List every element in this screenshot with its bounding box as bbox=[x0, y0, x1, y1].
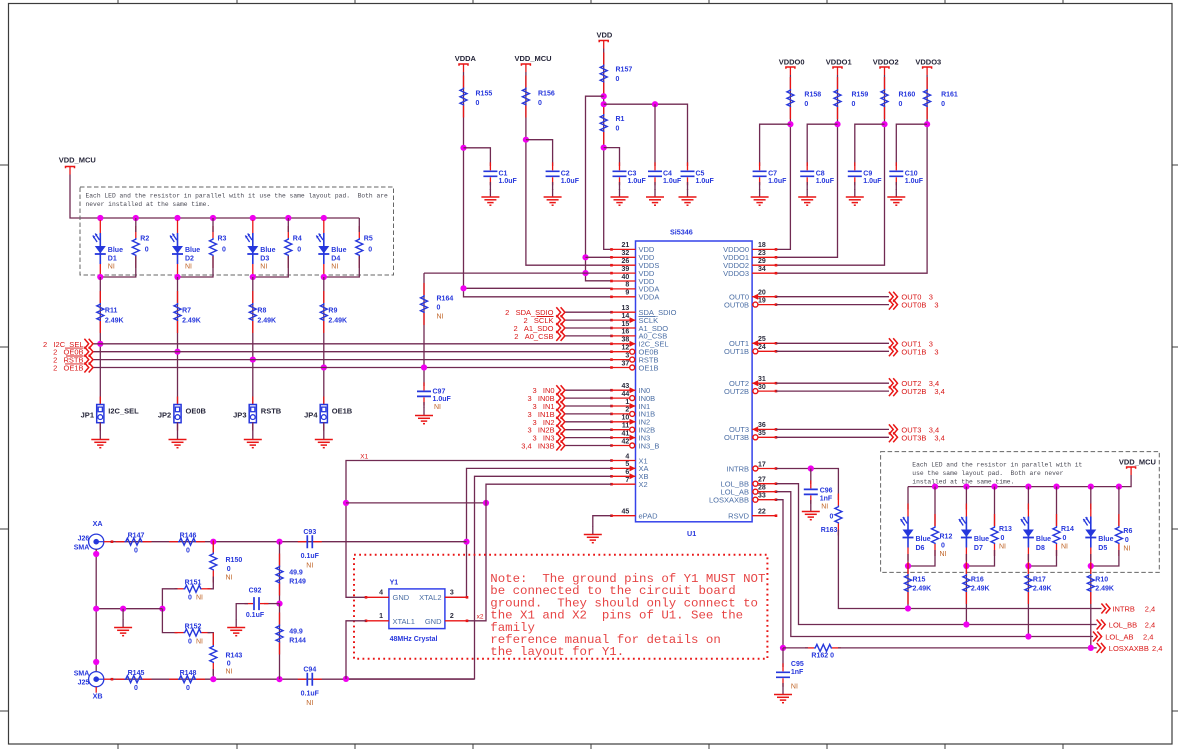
wire R7 column bbox=[177, 277, 179, 405]
svg-text:C95: C95 bbox=[791, 661, 804, 668]
resistor R149 49.9 bbox=[276, 554, 283, 596]
svg-text:0: 0 bbox=[1063, 535, 1067, 542]
U1 pin 30 OUT2B bbox=[752, 390, 776, 392]
resistor R12 0 NI bbox=[932, 514, 939, 556]
off-page connector IN3 bbox=[556, 433, 565, 443]
wire R150 drop bbox=[212, 542, 214, 553]
wire net IN3B bbox=[565, 445, 612, 447]
svg-text:R5: R5 bbox=[364, 236, 373, 243]
U1 pin 8 VDDA bbox=[612, 288, 636, 290]
wire R151 to mid rail bbox=[162, 589, 177, 609]
junction rail/R6 bbox=[1116, 484, 1122, 490]
junction R8/bus bbox=[250, 357, 256, 363]
resistor R158 0 bbox=[787, 77, 794, 119]
svg-text:1: 1 bbox=[379, 613, 383, 620]
resistor R145 0 bbox=[116, 676, 152, 683]
svg-text:R157: R157 bbox=[616, 67, 633, 74]
U1 pin 10 IN2 bbox=[612, 421, 636, 423]
ground under C97 bbox=[415, 408, 433, 424]
svg-text:0: 0 bbox=[941, 543, 945, 550]
svg-text:34: 34 bbox=[758, 266, 766, 273]
wire net SCLK bbox=[565, 319, 612, 321]
svg-text:R155: R155 bbox=[476, 91, 493, 98]
svg-text:NI: NI bbox=[1123, 546, 1130, 553]
junction VDD/C4C5 bbox=[601, 101, 607, 107]
wire VDD vert to pin 32 bbox=[586, 256, 612, 258]
junction VDDO1/C8 bbox=[834, 121, 840, 127]
wire R17 column bbox=[1027, 554, 1029, 637]
wire R152 to R143 bbox=[208, 633, 214, 645]
U1 pin 1 IN1 bbox=[612, 405, 636, 407]
wire mid rail ground stem bbox=[122, 609, 124, 620]
svg-text:NI: NI bbox=[437, 314, 444, 321]
wire R10 column bbox=[1090, 554, 1092, 648]
svg-text:INTRB: INTRB bbox=[727, 464, 750, 473]
svg-text:R145: R145 bbox=[128, 670, 145, 677]
capacitor C96 1nF NI bbox=[804, 480, 818, 503]
SMA connector J25 bbox=[89, 672, 112, 693]
svg-text:2 OE1B: 2 OE1B bbox=[53, 364, 83, 373]
svg-text:0: 0 bbox=[222, 247, 226, 254]
svg-text:2.49K: 2.49K bbox=[1033, 586, 1052, 593]
wire XB row bbox=[110, 678, 475, 680]
svg-text:1.0uF: 1.0uF bbox=[696, 178, 715, 185]
svg-text:C96: C96 bbox=[820, 488, 833, 495]
svg-text:Si5346: Si5346 bbox=[670, 228, 693, 237]
wire C5 to ground bbox=[687, 182, 689, 190]
junction R17/signal row bbox=[1025, 633, 1031, 639]
svg-text:X1: X1 bbox=[360, 453, 368, 460]
off-page connector LOL_AB bbox=[1093, 632, 1102, 642]
junction shield/mid rail bbox=[93, 606, 99, 612]
svg-text:2.49K: 2.49K bbox=[913, 586, 932, 593]
svg-text:1nF: 1nF bbox=[820, 496, 833, 503]
wire net LOL_AB bbox=[776, 492, 1093, 637]
U1 pin 3 RSTB bbox=[612, 359, 636, 361]
wire VDDO3 rail to IC bbox=[776, 75, 927, 273]
resistor R155 0 bbox=[460, 76, 467, 118]
svg-text:1.0uF: 1.0uF bbox=[905, 178, 924, 185]
svg-text:JP4: JP4 bbox=[304, 411, 318, 420]
U1 pin 4 X1 bbox=[612, 460, 636, 462]
LED D2 Blue NI bbox=[170, 220, 183, 277]
svg-text:R149: R149 bbox=[289, 579, 306, 586]
svg-text:2,4: 2,4 bbox=[1143, 633, 1153, 642]
svg-text:R11: R11 bbox=[105, 308, 118, 315]
ground under C7 bbox=[751, 189, 769, 205]
svg-text:0: 0 bbox=[186, 548, 190, 555]
junction J26 shield bbox=[93, 551, 99, 557]
off-page connector OUT1 bbox=[889, 338, 898, 348]
resistor R162 0 bbox=[805, 644, 841, 651]
wire R8 column bbox=[252, 277, 254, 405]
junction rail/R2 bbox=[133, 215, 139, 221]
svg-text:2.49K: 2.49K bbox=[105, 318, 124, 325]
svg-text:0: 0 bbox=[1001, 535, 1005, 542]
svg-text:installed at the same time.: installed at the same time. bbox=[912, 479, 1014, 486]
svg-text:40: 40 bbox=[622, 274, 630, 281]
wire C8 to ground bbox=[806, 182, 808, 190]
wire net A0_CSB bbox=[565, 335, 612, 337]
wire net A1_SDO bbox=[565, 327, 612, 329]
off-page connector IN1 bbox=[556, 401, 565, 411]
svg-text:R164: R164 bbox=[437, 296, 454, 303]
jumper JP2 OE0B bbox=[174, 397, 181, 431]
svg-text:4: 4 bbox=[625, 453, 629, 460]
capacitor C10 1.0uF bbox=[889, 162, 903, 185]
svg-text:9: 9 bbox=[625, 290, 629, 297]
junction R9/bus bbox=[321, 364, 327, 370]
junction R11/bus bbox=[97, 341, 103, 347]
svg-text:R6: R6 bbox=[1123, 528, 1132, 535]
LED D6 Blue bbox=[901, 504, 914, 561]
wire net IN0 bbox=[565, 389, 612, 391]
wire VDDO1 rail to IC bbox=[776, 75, 838, 257]
capacitor C4 1.0uF bbox=[648, 162, 662, 185]
resistor R156 0 bbox=[522, 76, 529, 118]
svg-text:0: 0 bbox=[368, 247, 372, 254]
wire C1 to ground bbox=[489, 182, 491, 190]
svg-text:D1: D1 bbox=[108, 256, 117, 263]
svg-text:Blue: Blue bbox=[974, 536, 989, 543]
svg-text:3: 3 bbox=[934, 347, 938, 356]
svg-text:LOSXAXBB: LOSXAXBB bbox=[709, 496, 749, 505]
overline on SCLK label bbox=[537, 316, 554, 318]
resistor R13 0 NI bbox=[991, 514, 998, 556]
svg-text:C3: C3 bbox=[628, 171, 637, 178]
resistor R16 2.49K bbox=[963, 562, 970, 604]
svg-text:NI: NI bbox=[331, 264, 338, 271]
svg-text:JP3: JP3 bbox=[233, 411, 246, 420]
svg-text:2.49K: 2.49K bbox=[328, 318, 347, 325]
resistor R164 0 NI bbox=[421, 283, 428, 325]
svg-text:XA: XA bbox=[93, 519, 103, 528]
svg-text:NI: NI bbox=[260, 264, 267, 271]
svg-text:R10: R10 bbox=[1095, 577, 1108, 584]
wire C95 drop bbox=[782, 648, 784, 667]
wire LOSXAXBB dot to R162 bbox=[783, 647, 808, 649]
wire rail stub to R2 bbox=[135, 218, 137, 232]
svg-text:D4: D4 bbox=[331, 256, 340, 263]
svg-text:1.0uF: 1.0uF bbox=[628, 178, 647, 185]
junction VDD/C3 bbox=[601, 145, 607, 151]
wire R144 column bbox=[279, 604, 281, 680]
U1 pin 5 XA bbox=[612, 467, 636, 469]
ground under C10 bbox=[887, 189, 905, 205]
junction D6 bottom bbox=[905, 563, 911, 569]
off-page connector LOL_BB bbox=[1097, 620, 1106, 630]
jumper JP4 OE1B bbox=[320, 397, 327, 431]
svg-text:2.49K: 2.49K bbox=[257, 318, 276, 325]
wire D3/R4 pair bottom bbox=[253, 256, 288, 277]
U1 pin 13 SDA_SDIO bbox=[612, 311, 636, 313]
svg-text:NI: NI bbox=[185, 264, 192, 271]
svg-text:R8: R8 bbox=[257, 308, 266, 315]
off-page connector OE1B (left) bbox=[84, 363, 93, 373]
svg-text:R162 0: R162 0 bbox=[811, 653, 834, 660]
svg-text:2 A0_CSB: 2 A0_CSB bbox=[514, 332, 553, 341]
svg-text:R9: R9 bbox=[328, 308, 337, 315]
resistor R144 49.9 bbox=[276, 613, 283, 655]
svg-text:30: 30 bbox=[758, 384, 766, 391]
svg-text:OUT1B: OUT1B bbox=[901, 347, 926, 356]
svg-text:15: 15 bbox=[622, 321, 630, 328]
off-page connector INTRB bbox=[1101, 604, 1110, 614]
Y1 pin 3 XTAL2 stub bbox=[445, 596, 467, 598]
svg-text:OUT0B: OUT0B bbox=[724, 300, 749, 309]
svg-text:NI: NI bbox=[434, 404, 441, 411]
wire R11 column bbox=[99, 277, 101, 405]
svg-text:45: 45 bbox=[622, 509, 630, 516]
junction D3 bottom bbox=[250, 274, 256, 280]
wire net OE0B bus bbox=[93, 351, 612, 353]
svg-text:16: 16 bbox=[622, 329, 630, 336]
junction rail/D4 bbox=[321, 215, 327, 221]
svg-text:NI: NI bbox=[196, 638, 203, 645]
off-page connector OE0B (left) bbox=[84, 347, 93, 357]
svg-text:R159: R159 bbox=[852, 92, 869, 99]
wire D4/R5 pair bottom bbox=[324, 256, 360, 277]
svg-text:11: 11 bbox=[622, 423, 630, 430]
svg-text:Blue: Blue bbox=[1036, 536, 1051, 543]
wire C96 drop bbox=[810, 469, 812, 485]
junction rail/D2 bbox=[174, 215, 180, 221]
wire VDDO2 rail to IC bbox=[776, 75, 885, 265]
svg-text:3: 3 bbox=[929, 339, 933, 348]
capacitor C94 0.1uF NI bbox=[298, 673, 322, 686]
junction rail/D8 bbox=[1025, 484, 1031, 490]
svg-text:0: 0 bbox=[145, 247, 149, 254]
wire net OUT0 bbox=[776, 296, 889, 298]
off-page connector A1_SDO bbox=[556, 323, 565, 333]
svg-text:31: 31 bbox=[758, 376, 766, 383]
wire rail to D6 bbox=[907, 487, 909, 510]
ground under JP4 bbox=[315, 432, 333, 448]
wire D7/R13 pair bottom bbox=[966, 550, 994, 566]
svg-text:0: 0 bbox=[188, 638, 192, 645]
svg-text:C7: C7 bbox=[768, 171, 777, 178]
svg-text:Y1: Y1 bbox=[390, 580, 399, 587]
wire C4 to ground bbox=[654, 182, 656, 190]
svg-text:LOL_AB: LOL_AB bbox=[1105, 633, 1133, 642]
svg-text:R7: R7 bbox=[182, 308, 191, 315]
off-page connector A0_CSB bbox=[556, 331, 565, 341]
resistor R160 0 bbox=[881, 77, 888, 119]
off-page connector OUT3B bbox=[889, 432, 898, 442]
svg-text:R1: R1 bbox=[616, 116, 625, 123]
wire rail stub to R14 bbox=[1056, 487, 1058, 526]
svg-text:C2: C2 bbox=[561, 171, 570, 178]
svg-text:R146: R146 bbox=[180, 532, 197, 539]
svg-text:0: 0 bbox=[227, 660, 231, 667]
junction R10/signal row bbox=[1088, 645, 1094, 651]
wire rail stub to R6 bbox=[1118, 487, 1120, 526]
svg-text:XB: XB bbox=[93, 692, 103, 701]
resistor R15 2.49K bbox=[905, 562, 912, 604]
capacitor C2 1.0uF bbox=[546, 162, 560, 185]
svg-text:27: 27 bbox=[758, 477, 766, 484]
note box dotted border bbox=[354, 555, 767, 659]
junction X2 tie bbox=[483, 500, 489, 506]
svg-text:LOL_BB: LOL_BB bbox=[1109, 621, 1137, 630]
svg-text:49.9: 49.9 bbox=[289, 629, 303, 636]
svg-text:1.0uF: 1.0uF bbox=[433, 396, 452, 403]
svg-text:R14: R14 bbox=[1061, 526, 1074, 533]
wire R164 column (VDD pin39 line to C97) bbox=[424, 272, 612, 274]
capacitor C97 1.0uF NI bbox=[417, 382, 431, 405]
U1 pin 37 OE1B bbox=[612, 367, 636, 369]
resistor R10 2.49K bbox=[1087, 562, 1094, 604]
svg-text:1.0uF: 1.0uF bbox=[768, 178, 787, 185]
off-page connector OUT2 bbox=[889, 378, 898, 388]
svg-text:37: 37 bbox=[622, 360, 630, 367]
svg-text:48MHz Crystal: 48MHz Crystal bbox=[390, 636, 438, 643]
ground under JP1 bbox=[91, 432, 109, 448]
svg-text:OUT2B: OUT2B bbox=[724, 387, 749, 396]
svg-text:XTAL2: XTAL2 bbox=[419, 593, 441, 602]
svg-text:R156: R156 bbox=[538, 91, 555, 98]
svg-text:3: 3 bbox=[929, 293, 933, 302]
wire C9 to ground bbox=[854, 182, 856, 190]
resistor R4 0 bbox=[285, 226, 292, 268]
svg-text:0: 0 bbox=[1125, 537, 1129, 544]
svg-text:14: 14 bbox=[622, 313, 630, 320]
svg-text:3: 3 bbox=[625, 352, 629, 359]
svg-text:VDDA: VDDA bbox=[639, 293, 660, 302]
svg-text:I2C_SEL: I2C_SEL bbox=[108, 407, 139, 416]
junction XB/R144 bbox=[276, 676, 282, 682]
junction rail/R12 bbox=[932, 484, 938, 490]
svg-text:INTRB: INTRB bbox=[1112, 605, 1135, 614]
off-page connector I2C_SEL (left) bbox=[84, 339, 93, 349]
LED D4 Blue NI bbox=[316, 220, 329, 277]
power VDD_MCU bar right bbox=[1127, 467, 1136, 475]
junction INTRB/C96 bbox=[808, 465, 814, 471]
junction XB/R143 bbox=[210, 676, 216, 682]
wire net XB bbox=[346, 476, 612, 679]
svg-text:NI: NI bbox=[306, 563, 313, 570]
svg-text:0: 0 bbox=[899, 101, 903, 108]
svg-text:8: 8 bbox=[625, 282, 629, 289]
svg-text:2: 2 bbox=[450, 613, 454, 620]
svg-text:Each LED and the resistor in p: Each LED and the resistor in parallel wi… bbox=[912, 462, 1082, 469]
wire VDD_MCU rail to LED bank bbox=[70, 175, 359, 219]
junction VDD/R157-R1 bbox=[601, 93, 607, 99]
resistor R9 2.49K bbox=[320, 291, 327, 333]
wire net INTRB bbox=[776, 469, 838, 501]
wire C3 to ground bbox=[619, 182, 621, 190]
svg-text:OUT3B: OUT3B bbox=[901, 433, 926, 442]
wire net OUT1B bbox=[776, 350, 889, 352]
wire VDD rail to pin 21 bbox=[604, 49, 612, 250]
resistor R157 0 bbox=[600, 53, 607, 95]
wire net OE1B bus bbox=[93, 367, 612, 369]
wire VDD_MCU to C2 bbox=[526, 140, 553, 166]
wire net OUT3B bbox=[776, 436, 889, 438]
junction VDDO2/C9 bbox=[881, 121, 887, 127]
svg-text:R163: R163 bbox=[821, 527, 838, 534]
junction rail/R3 bbox=[210, 215, 216, 221]
LED D3 Blue NI bbox=[245, 220, 258, 277]
svg-text:JP2: JP2 bbox=[158, 411, 171, 420]
svg-text:R151: R151 bbox=[185, 580, 202, 587]
ground under ePAD bbox=[584, 527, 602, 543]
junction VDDA pin8/pin9 bbox=[460, 285, 466, 291]
junction R16/signal row bbox=[963, 621, 969, 627]
off-page connector SDA_SDIO bbox=[556, 307, 565, 317]
U1 pin 34 VDDO3 bbox=[752, 272, 776, 274]
svg-text:25: 25 bbox=[758, 336, 766, 343]
ground under C2 bbox=[544, 189, 562, 205]
svg-text:RSVD: RSVD bbox=[728, 512, 749, 521]
ground under C5 bbox=[679, 189, 697, 205]
svg-text:NI: NI bbox=[306, 700, 313, 707]
wire net IN1B bbox=[565, 413, 612, 415]
wire net IN2B bbox=[565, 429, 612, 431]
svg-text:LOSXAXBB: LOSXAXBB bbox=[1109, 644, 1149, 653]
svg-text:the layout for Y1.: the layout for Y1. bbox=[490, 645, 624, 659]
junction D7 bottom bbox=[963, 563, 969, 569]
resistor R152 0 NI bbox=[175, 629, 211, 636]
svg-text:SMA: SMA bbox=[74, 671, 90, 678]
svg-text:OUT2B: OUT2B bbox=[901, 387, 926, 396]
resistor R147 0 bbox=[116, 538, 152, 545]
wire D2/R3 pair bottom bbox=[178, 256, 214, 277]
U1 pin 9 VDDA bbox=[612, 296, 636, 298]
junction VDD_MCU/C2 bbox=[523, 137, 529, 143]
junction D4 bottom bbox=[321, 274, 327, 280]
off-page connector IN0 bbox=[556, 385, 565, 395]
svg-text:0: 0 bbox=[476, 100, 480, 107]
wire net XA bbox=[445, 468, 612, 597]
svg-text:R15: R15 bbox=[913, 577, 926, 584]
svg-text:C8: C8 bbox=[816, 171, 825, 178]
off-page connector OUT3 bbox=[889, 424, 898, 434]
U1 pin 44 IN0B bbox=[612, 397, 636, 399]
svg-text:0: 0 bbox=[538, 100, 542, 107]
wire VDDO2 to C9 bbox=[855, 124, 885, 166]
resistor R14 0 NI bbox=[1053, 514, 1060, 556]
wire net IN1 bbox=[565, 405, 612, 407]
wire JP1 to ground bbox=[99, 422, 101, 431]
svg-text:OUT1B: OUT1B bbox=[724, 347, 749, 356]
wire R150 to R151 bbox=[208, 577, 214, 589]
svg-text:R148: R148 bbox=[180, 670, 197, 677]
svg-text:3: 3 bbox=[934, 301, 938, 310]
wire ePAD to ground bbox=[593, 516, 612, 527]
resistor R11 2.49K bbox=[97, 291, 104, 333]
U1 pin 38 I2C_SEL bbox=[612, 343, 636, 345]
svg-text:6: 6 bbox=[625, 469, 629, 476]
wire D8/R14 pair bottom bbox=[1028, 550, 1056, 566]
junction C4 tap bbox=[652, 101, 658, 107]
junction XB/XTAL1 bbox=[343, 676, 349, 682]
wire VDD_MCU LED rail bbox=[908, 475, 1131, 487]
svg-text:D3: D3 bbox=[260, 256, 269, 263]
svg-text:XTAL1: XTAL1 bbox=[393, 617, 415, 626]
power VDD_MCU bar bbox=[66, 167, 75, 175]
U1 pin 20 OUT0 bbox=[752, 296, 776, 298]
svg-text:0: 0 bbox=[829, 514, 833, 521]
svg-text:D8: D8 bbox=[1036, 545, 1045, 552]
svg-text:0: 0 bbox=[134, 685, 138, 692]
wire net RSTB bus bbox=[93, 359, 612, 361]
svg-text:2.49K: 2.49K bbox=[1095, 586, 1114, 593]
wire VDDO0 to C7 bbox=[760, 124, 791, 166]
svg-text:SMA: SMA bbox=[74, 545, 90, 552]
ground under C1 bbox=[481, 189, 499, 205]
svg-text:D5: D5 bbox=[1098, 545, 1107, 552]
